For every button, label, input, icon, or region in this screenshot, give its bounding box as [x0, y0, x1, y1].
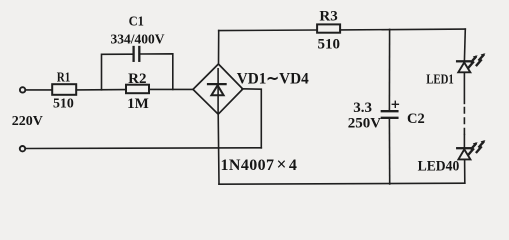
wire: bottom AC wire — [26, 147, 262, 150]
svg-text:250V: 250V — [348, 116, 382, 132]
diode inside bridge — [217, 69, 219, 113]
wire: below LED1 solid — [463, 72, 465, 103]
svg-text:R2: R2 — [128, 71, 146, 87]
bridge rectifier VD1~VD4 — [193, 64, 309, 174]
terminal: 220V bottom input — [20, 146, 25, 151]
wire: R1 to R2 — [76, 89, 126, 91]
LED D40 (LED40) — [418, 148, 471, 174]
svg-text:C2: C2 — [407, 111, 425, 127]
wire: C2 top riser — [388, 29, 390, 111]
svg-text:510: 510 — [318, 37, 341, 53]
wire: R2 to bridge left vertex — [149, 88, 193, 90]
svg-text:3.3: 3.3 — [353, 100, 372, 116]
wire: terminal to R1 — [26, 89, 53, 91]
svg-text:R3: R3 — [319, 8, 337, 24]
wire: bridge bottom vertex to bottom rail — [217, 114, 220, 184]
terminal: 220V top input — [20, 87, 25, 92]
wire: C2 bottom riser — [388, 118, 390, 184]
capacitor C2 — [348, 100, 425, 132]
svg-text:LED40: LED40 — [418, 158, 460, 174]
wire: bottom rail — [219, 183, 465, 184]
wire: top rail left of R3 — [219, 29, 317, 32]
resistor R1 — [52, 69, 76, 111]
wire: LED40 to bottom rail — [464, 159, 466, 183]
wire: bridge top vertex to top rail — [218, 31, 220, 64]
svg-text:1M: 1M — [127, 96, 149, 112]
svg-text:R1: R1 — [57, 69, 71, 84]
wire: top rail corner down to LED1 — [463, 29, 466, 61]
wire: bridge right vertex over to bottom AC wire — [242, 89, 261, 148]
svg-text:C1: C1 — [129, 14, 144, 29]
resistor R2 — [126, 71, 149, 112]
svg-text:VD1∼VD4: VD1∼VD4 — [237, 71, 309, 88]
LED1 emission arrows — [469, 53, 486, 67]
wire: top rail right of R3 — [340, 28, 465, 31]
svg-text:334/400V: 334/400V — [111, 32, 165, 47]
wire: C1 branch left riser — [102, 54, 134, 90]
LED D1 (LED1) — [426, 61, 470, 87]
svg-text:220V: 220V — [12, 114, 43, 129]
svg-text:1N4007×4: 1N4007×4 — [221, 154, 298, 174]
wire: C1 branch right riser — [139, 54, 173, 90]
LED40 emission arrows — [469, 140, 486, 154]
svg-text:LED1: LED1 — [426, 73, 454, 88]
svg-text:510: 510 — [53, 96, 74, 111]
capacitor C1 — [111, 14, 165, 60]
wire: dashed LED string continuation — [463, 107, 465, 135]
resistor R3 — [317, 8, 340, 52]
wire: above LED40 solid — [463, 135, 465, 149]
